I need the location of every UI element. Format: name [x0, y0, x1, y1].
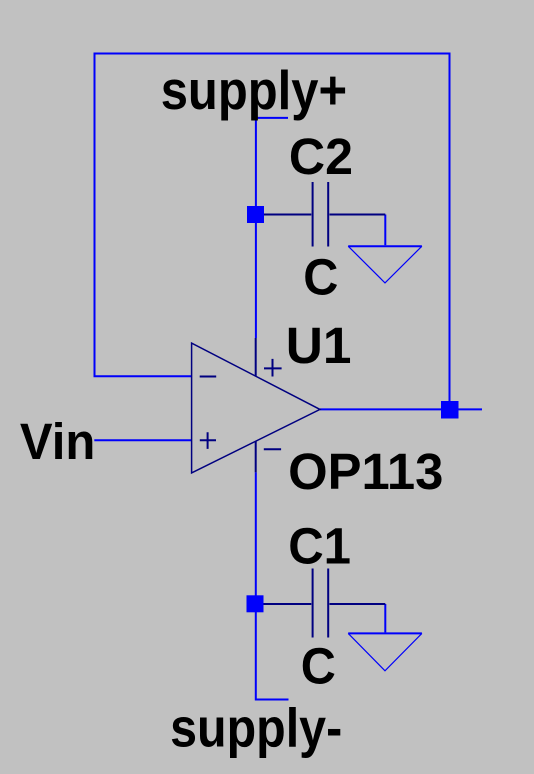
- svg-text:C: C: [303, 248, 338, 305]
- svg-text:C1: C1: [288, 517, 351, 574]
- svg-text:C2: C2: [289, 128, 353, 185]
- wire supply+ vertical: [255, 117, 257, 338]
- wire supply- vertical: [255, 472, 257, 700]
- wire output: [320, 408, 482, 410]
- ground (bottom, for C1): [348, 633, 422, 670]
- op-amp U1: [192, 338, 320, 473]
- wire C2 to ground: [384, 215, 386, 246]
- svg-text:OP113: OP113: [288, 443, 443, 500]
- wire Vin to non-inverting input: [94, 439, 191, 441]
- wire feedback to inverting input: [94, 375, 192, 377]
- node supply- label stub: [256, 699, 289, 701]
- wire feedback left vertical: [94, 53, 96, 377]
- node junction at supply+ / C2: [247, 206, 264, 223]
- capacitor C1: [256, 569, 385, 638]
- wire C1 to ground: [384, 604, 386, 632]
- capacitor C2: [256, 182, 385, 247]
- wire top horizontal: [94, 53, 451, 55]
- svg-text:C: C: [301, 637, 336, 694]
- svg-text:Vin: Vin: [20, 413, 95, 470]
- ground (top, for C2): [348, 246, 422, 283]
- svg-text:supply-: supply-: [170, 696, 342, 758]
- node supply+ label stub: [256, 117, 288, 119]
- wire right vertical: [449, 54, 451, 406]
- node junction at supply- / C1: [247, 595, 264, 612]
- svg-text:U1: U1: [286, 317, 352, 374]
- node junction at output: [441, 401, 459, 419]
- svg-text:supply+: supply+: [161, 59, 347, 121]
